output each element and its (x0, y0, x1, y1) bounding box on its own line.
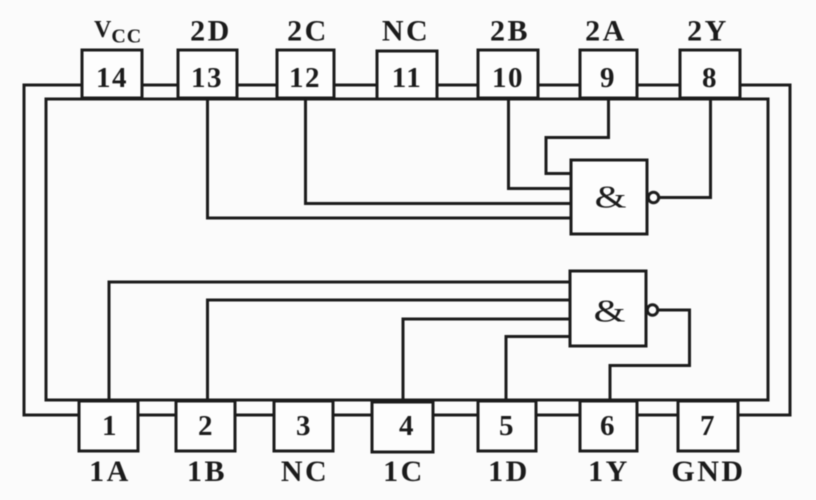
NAND gate U1 output inversion bubble (648, 192, 658, 202)
pin 4 box (372, 402, 433, 452)
pin 10 box (478, 50, 538, 98)
pin 11 box (377, 51, 437, 99)
wire pin12 to gate U1 input C (306, 98, 572, 204)
wire pin13 to gate U1 input D (208, 98, 572, 218)
wire pin2 to gate U2 input B (208, 300, 571, 401)
svg-text:2C: 2C (287, 15, 329, 48)
pin 14 box (82, 50, 142, 98)
wire gate U2 output to pin6 (610, 310, 690, 401)
svg-text:2D: 2D (190, 15, 232, 48)
pin 12 box (277, 50, 334, 98)
svg-text:5: 5 (499, 410, 515, 442)
pin 13 box (178, 50, 237, 98)
pin 2 box (176, 401, 235, 451)
svg-text:1: 1 (102, 410, 118, 442)
svg-text:14: 14 (96, 62, 128, 94)
wire pin4 to gate U2 input C (403, 319, 570, 401)
svg-text:NC: NC (281, 455, 329, 488)
svg-text:2A: 2A (585, 15, 627, 48)
svg-text:1B: 1B (187, 455, 227, 488)
NAND gate U2 output inversion bubble (647, 305, 657, 315)
svg-text:1C: 1C (383, 455, 425, 488)
svg-text:2: 2 (198, 410, 214, 442)
svg-text:2B: 2B (490, 15, 530, 48)
wire gate U1 output to pin8 (659, 98, 711, 198)
NAND gate U2 body (570, 271, 646, 346)
svg-text:3: 3 (296, 410, 312, 442)
svg-text:&: & (594, 293, 626, 329)
svg-text:VCC: VCC (94, 17, 142, 48)
svg-text:10: 10 (492, 62, 524, 94)
pin 1 box (79, 401, 138, 451)
svg-text:9: 9 (600, 62, 616, 94)
wire pin1 to gate U2 input A (109, 282, 570, 401)
svg-text:4: 4 (399, 410, 415, 442)
svg-text:&: & (595, 179, 627, 215)
svg-text:8: 8 (702, 62, 718, 94)
pin 9 box (580, 50, 637, 98)
svg-text:2Y: 2Y (687, 15, 729, 48)
svg-text:13: 13 (191, 62, 223, 94)
svg-text:11: 11 (392, 62, 422, 94)
pin 3 box (274, 401, 333, 451)
wire pin10 to gate U1 input B (509, 98, 572, 189)
svg-text:1Y: 1Y (588, 455, 630, 488)
svg-text:GND: GND (671, 455, 745, 488)
pin 5 box (478, 401, 536, 451)
svg-text:12: 12 (289, 62, 321, 94)
package outline (outer DIP rectangle) (24, 85, 790, 415)
pin 7 box (678, 401, 738, 451)
pin 6 box (580, 401, 637, 451)
NAND gate U1 body (571, 160, 647, 234)
svg-text:1D: 1D (488, 455, 530, 488)
svg-text:6: 6 (600, 410, 616, 442)
IC body (inner rectangle) (46, 99, 768, 400)
pin 8 box (680, 50, 740, 98)
wire pin5 to gate U2 input D (506, 337, 570, 402)
wire pin9 to gate U1 input A (546, 98, 609, 174)
svg-text:1A: 1A (89, 455, 131, 488)
svg-text:NC: NC (382, 15, 430, 48)
svg-text:7: 7 (700, 410, 716, 442)
